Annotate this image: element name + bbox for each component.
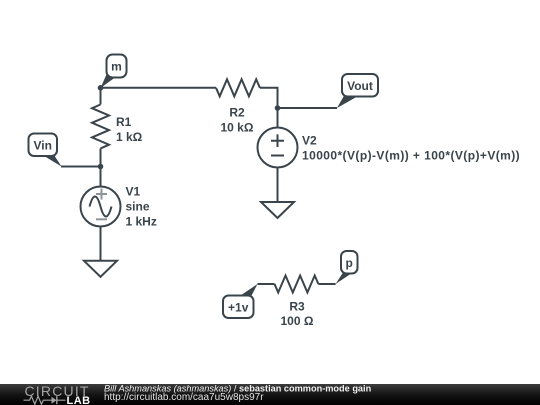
footer bar bbox=[0, 384, 540, 405]
junction dot at Vout node bbox=[275, 105, 281, 111]
node flag p bbox=[336, 251, 358, 284]
svg-text:R2: R2 bbox=[229, 105, 245, 119]
logo diode bbox=[52, 397, 57, 404]
wire: R3 right lead to p flag bbox=[318, 283, 335, 285]
resistor R2 (horizontal zigzag) bbox=[216, 79, 260, 96]
svg-text:Vin: Vin bbox=[33, 138, 51, 152]
wire: V1 bottom to ground bbox=[100, 227, 102, 261]
svg-text:m: m bbox=[111, 59, 122, 73]
wire: +1v flag to R3 left lead bbox=[258, 283, 275, 285]
V2 minus sign bbox=[271, 155, 284, 157]
junction dot at node m bbox=[98, 85, 104, 91]
svg-text:p: p bbox=[346, 256, 353, 270]
wire: junction down to V2 top bbox=[277, 108, 279, 128]
svg-text:V2: V2 bbox=[302, 133, 317, 147]
wire: Vin flag to node (horizontal y=166.5) bbox=[61, 166, 101, 168]
logo resistor-diode symbol bbox=[24, 396, 66, 404]
V1 sine wave bbox=[90, 197, 112, 217]
ground (below V1) bbox=[84, 261, 117, 277]
svg-text:1 kHz: 1 kHz bbox=[126, 214, 157, 228]
svg-text:+1v: +1v bbox=[228, 300, 249, 314]
svg-text:R1: R1 bbox=[116, 115, 132, 129]
resistor R1 (vertical zigzag) bbox=[92, 105, 109, 149]
svg-text:1 kΩ: 1 kΩ bbox=[116, 130, 143, 144]
voltage source V1 (circle) bbox=[81, 187, 121, 227]
resistor R3 (horizontal zigzag) bbox=[275, 276, 319, 293]
wire: R2 right lead to corner and down to junction bbox=[260, 88, 278, 108]
junction dot at Vin node bbox=[98, 164, 104, 170]
svg-text:sine: sine bbox=[126, 199, 150, 213]
svg-text:R3: R3 bbox=[289, 299, 305, 313]
V1 plus sign (light) bbox=[96, 189, 107, 200]
svg-text:V1: V1 bbox=[126, 184, 141, 198]
svg-text:Vout: Vout bbox=[347, 79, 373, 93]
svg-text:http://circuitlab.com/caa7u5w8: http://circuitlab.com/caa7u5w8ps97r bbox=[104, 392, 264, 403]
wire: V2 bottom to ground bbox=[277, 168, 279, 203]
wire: node m down to R1 top lead bbox=[100, 88, 102, 105]
wire: Vin node down to V1 top bbox=[100, 167, 102, 187]
V1 minus sign (light) bbox=[96, 218, 107, 220]
svg-text:LAB: LAB bbox=[67, 395, 91, 405]
voltage source V2 (circle) bbox=[258, 128, 298, 168]
wire: junction to Vout flag bbox=[278, 107, 338, 109]
node flag Vout bbox=[337, 74, 378, 108]
node flag m bbox=[101, 55, 127, 89]
svg-text:10 kΩ: 10 kΩ bbox=[221, 120, 254, 134]
node flag +1v bbox=[223, 284, 258, 318]
V2 plus sign bbox=[271, 134, 284, 147]
wire: R1 bottom lead to Vin node bbox=[100, 149, 102, 167]
ground (below V2) bbox=[261, 202, 294, 218]
node flag Vin bbox=[29, 134, 62, 167]
svg-text:100 Ω: 100 Ω bbox=[281, 314, 314, 328]
svg-text:10000*(V(p)-V(m)) + 100*(V(p)+: 10000*(V(p)-V(m)) + 100*(V(p)+V(m)) bbox=[302, 148, 520, 162]
wire: node m to R2 left lead (horizontal, y=87.8) bbox=[101, 87, 217, 89]
